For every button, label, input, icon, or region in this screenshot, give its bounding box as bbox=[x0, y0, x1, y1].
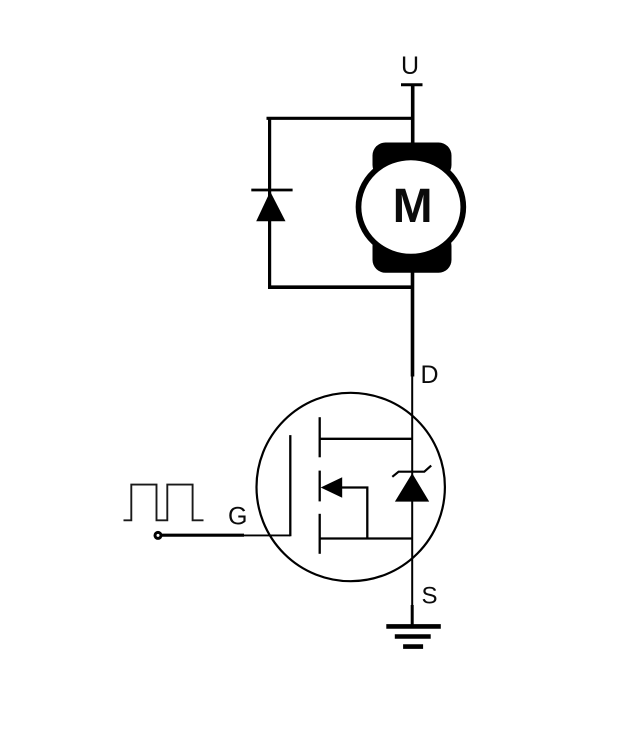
ground bar 3 bbox=[403, 644, 423, 649]
motor M1 top brush block bbox=[373, 143, 452, 179]
wire drain-source thin vertical bbox=[411, 376, 413, 606]
wire top branch to diode bbox=[267, 117, 414, 120]
MOSFET Q1 channel segment source side bbox=[319, 514, 321, 554]
MOSFET Q1 gate electrode bbox=[289, 435, 291, 536]
MOSFET Q1 drain contact wire bbox=[320, 438, 413, 440]
pulse source square wave bbox=[124, 485, 204, 521]
diode D1 freewheeling cathode bar bbox=[251, 189, 292, 192]
svg-text:G: G bbox=[228, 503, 247, 531]
MOSFET Q1 channel segment drain side bbox=[319, 417, 321, 457]
MOSFET Q1 channel segment body bbox=[319, 471, 321, 502]
terminal U bar bbox=[401, 83, 423, 86]
svg-text:U: U bbox=[401, 52, 419, 80]
wire motor to drain bbox=[411, 272, 415, 377]
ground bar 2 bbox=[395, 634, 431, 639]
wire U to motor bbox=[411, 84, 415, 146]
wire source to ground stub bbox=[411, 605, 414, 627]
wire gate lead thick bbox=[162, 534, 245, 537]
gate input terminal circle bbox=[155, 532, 161, 538]
svg-text:M: M bbox=[393, 180, 433, 233]
wire diode branch vertical bbox=[268, 117, 271, 289]
MOSFET Q1 body arrow bbox=[321, 477, 343, 498]
wire bottom branch diode to motor bbox=[268, 285, 414, 289]
svg-text:D: D bbox=[421, 361, 439, 389]
svg-text:S: S bbox=[422, 583, 438, 610]
MOSFET Q1 body connection wire bbox=[342, 488, 368, 539]
ground bar 1 bbox=[386, 624, 441, 629]
MOSFET Q1 envelope circle bbox=[257, 393, 445, 581]
wire gate lead thin bbox=[244, 534, 290, 536]
zener body diode anode triangle bbox=[395, 473, 429, 501]
motor M1 body circle bbox=[359, 157, 464, 256]
motor M1 bottom brush block bbox=[373, 233, 452, 273]
zener body diode cathode bar bbox=[392, 466, 431, 477]
diode D1 anode triangle bbox=[256, 192, 285, 222]
MOSFET Q1 source contact wire bbox=[320, 537, 413, 539]
